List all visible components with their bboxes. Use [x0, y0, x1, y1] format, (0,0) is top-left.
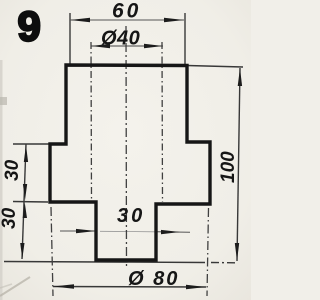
svg-text:30: 30: [2, 159, 23, 181]
svg-text:Ø40: Ø40: [101, 28, 140, 50]
svg-text:30: 30: [0, 207, 20, 229]
svg-text:9: 9: [18, 3, 41, 50]
svg-text:Ø 80: Ø 80: [128, 268, 179, 290]
svg-text:100: 100: [218, 151, 239, 183]
svg-text:30: 30: [117, 205, 145, 227]
svg-text:60: 60: [112, 0, 141, 23]
